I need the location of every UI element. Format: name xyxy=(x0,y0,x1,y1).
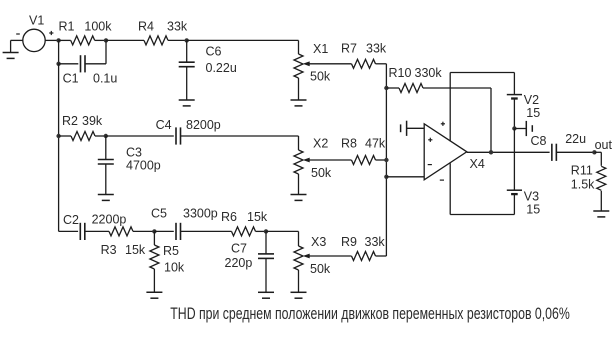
op-amp noninverting input ground xyxy=(407,127,425,129)
ground below R11 xyxy=(593,210,609,212)
ground below X1 xyxy=(291,99,307,101)
svg-text:50k: 50k xyxy=(310,262,331,276)
svg-text:3300p: 3300p xyxy=(183,206,218,220)
svg-text:33k: 33k xyxy=(366,42,387,56)
capacitor C4 xyxy=(106,135,174,137)
svg-text:50k: 50k xyxy=(310,70,331,84)
svg-text:15: 15 xyxy=(526,106,540,120)
V1 minus mark xyxy=(16,33,20,35)
op-amp power plus mark xyxy=(441,123,445,125)
resistor R5 xyxy=(153,231,155,245)
svg-text:39k: 39k xyxy=(82,114,103,128)
node C6 top junction xyxy=(185,38,189,42)
wire C8 to out xyxy=(556,151,594,153)
svg-text:R10: R10 xyxy=(389,66,412,80)
svg-text:R8: R8 xyxy=(341,137,357,151)
potentiometer X3 xyxy=(294,246,303,270)
svg-text:4700p: 4700p xyxy=(126,159,161,173)
svg-text:R2: R2 xyxy=(62,114,78,128)
node supply midpoint junction xyxy=(512,126,516,130)
svg-text:X3: X3 xyxy=(311,235,326,249)
svg-text:V3: V3 xyxy=(524,190,539,204)
node R10 left junction xyxy=(384,86,388,90)
svg-text:R1: R1 xyxy=(59,20,75,34)
op-amp positive supply pin xyxy=(449,73,451,142)
svg-text:2200p: 2200p xyxy=(92,213,127,227)
node R2 left junction xyxy=(56,134,60,138)
svg-text:10k: 10k xyxy=(164,260,185,274)
X3 wiper arrow xyxy=(303,254,310,259)
svg-text:V2: V2 xyxy=(524,93,539,107)
op-amp X4 xyxy=(424,124,467,180)
svg-text:8200p: 8200p xyxy=(186,118,221,132)
svg-text:R3: R3 xyxy=(101,243,117,257)
wire R10 feedback down to output xyxy=(490,88,492,152)
svg-text:C5: C5 xyxy=(151,207,167,221)
op-amp input plus mark xyxy=(428,139,432,141)
wire left rail xyxy=(58,64,60,232)
wire X2 bottom to ground xyxy=(298,174,300,195)
voltage source V1 xyxy=(23,29,45,51)
capacitor C2 xyxy=(59,230,79,232)
svg-text:0.1u: 0.1u xyxy=(93,71,117,85)
node out terminal xyxy=(592,150,596,154)
svg-text:R7: R7 xyxy=(341,42,357,56)
svg-text:X1: X1 xyxy=(313,42,328,56)
op-amp input minus mark xyxy=(428,164,432,166)
capacitor C5 xyxy=(154,230,173,232)
capacitor C8 xyxy=(551,144,553,161)
svg-text:R4: R4 xyxy=(138,20,154,34)
wire right rail down xyxy=(385,64,387,256)
capacitor C7 xyxy=(265,231,267,253)
svg-text:15k: 15k xyxy=(125,243,146,257)
ground below C6 xyxy=(179,99,195,101)
node R2 right junction xyxy=(104,134,108,138)
potentiometer X2 xyxy=(294,150,303,174)
ground at V1 xyxy=(3,52,19,54)
resistor R8 xyxy=(309,159,352,161)
svg-text:15: 15 xyxy=(526,202,540,216)
svg-text:X4: X4 xyxy=(470,157,485,171)
svg-text:0.22u: 0.22u xyxy=(206,61,237,75)
wire V3 to negative supply pin xyxy=(513,194,515,215)
ground below X2 xyxy=(291,194,307,196)
resistor R3 xyxy=(109,227,133,236)
X2 wiper arrow xyxy=(303,158,310,163)
capacitor C3 xyxy=(105,136,107,159)
svg-text:R5: R5 xyxy=(163,244,179,258)
wire to X2 xyxy=(298,136,300,150)
resistor R1 xyxy=(59,39,71,41)
svg-text:C8: C8 xyxy=(531,134,547,148)
wire out to R11 xyxy=(594,151,601,153)
ground below R5 xyxy=(146,291,162,293)
node R8 right junction xyxy=(384,158,388,162)
capacitor C6 xyxy=(186,40,188,62)
svg-text:out: out xyxy=(595,138,613,152)
wire V1 right to node xyxy=(45,39,58,41)
svg-text:R11: R11 xyxy=(571,163,593,177)
capacitor C1 xyxy=(59,63,79,65)
V1 plus mark xyxy=(49,32,53,34)
node inverting input junction xyxy=(384,175,388,179)
supply midpoint ground xyxy=(514,128,526,130)
svg-text:220p: 220p xyxy=(225,256,253,270)
svg-text:1.5k: 1.5k xyxy=(571,177,595,191)
svg-text:15k: 15k xyxy=(247,210,268,224)
wire to X3 xyxy=(266,230,299,232)
svg-text:R9: R9 xyxy=(341,235,357,249)
wire V1 left to ground xyxy=(11,39,23,41)
node C1 left junction xyxy=(56,62,60,66)
op-amp power minus mark xyxy=(440,179,444,181)
wire X3 bottom to ground xyxy=(298,270,300,292)
wire ground node to V3 xyxy=(513,129,515,191)
resistor R2 xyxy=(59,135,71,137)
svg-text:330k: 330k xyxy=(415,66,443,80)
battery V2 xyxy=(507,94,522,96)
svg-text:33k: 33k xyxy=(365,235,386,249)
svg-text:C4: C4 xyxy=(156,118,172,132)
resistor R10 xyxy=(386,87,399,89)
svg-text:C3: C3 xyxy=(126,146,142,160)
svg-text:THD при среднем положении движ: THD при среднем положении движков переме… xyxy=(170,305,570,323)
ground below C3 xyxy=(98,194,114,196)
node R3 right junction xyxy=(152,229,156,233)
wire V2 to ground node xyxy=(513,98,515,128)
node R6 right junction xyxy=(264,229,268,233)
X1 wiper arrow xyxy=(303,61,310,66)
svg-text:22u: 22u xyxy=(565,132,586,146)
svg-text:C7: C7 xyxy=(231,242,247,256)
svg-text:C6: C6 xyxy=(206,45,222,59)
svg-text:100k: 100k xyxy=(84,20,112,34)
svg-text:V1: V1 xyxy=(29,13,44,27)
svg-text:X2: X2 xyxy=(313,137,328,151)
svg-text:R6: R6 xyxy=(221,210,237,224)
ground below C7 xyxy=(258,291,274,293)
wire to op-amp inverting input xyxy=(386,176,424,178)
svg-text:47k: 47k xyxy=(365,137,386,151)
resistor R6 xyxy=(232,227,256,236)
resistor R9 xyxy=(309,255,352,257)
wire supply top rail xyxy=(450,72,514,74)
resistor R7 xyxy=(309,63,352,65)
node feedback junction xyxy=(489,150,493,154)
node V1 output junction xyxy=(56,38,60,42)
node R1 right junction xyxy=(104,38,108,42)
battery V3 xyxy=(507,189,522,191)
svg-text:C2: C2 xyxy=(63,213,79,227)
svg-text:33k: 33k xyxy=(167,20,188,34)
wire op-amp output xyxy=(467,151,550,153)
resistor R4 xyxy=(106,39,144,41)
svg-text:C1: C1 xyxy=(63,71,79,85)
potentiometer X1 xyxy=(294,54,303,78)
wire X1 bottom to ground xyxy=(298,78,300,100)
ground below X3 xyxy=(291,291,307,293)
wire to C1 xyxy=(58,40,60,63)
svg-text:50k: 50k xyxy=(311,166,332,180)
wire top rail to X1 xyxy=(187,39,299,41)
op-amp negative supply pin xyxy=(449,163,451,214)
resistor R11 xyxy=(597,166,606,190)
